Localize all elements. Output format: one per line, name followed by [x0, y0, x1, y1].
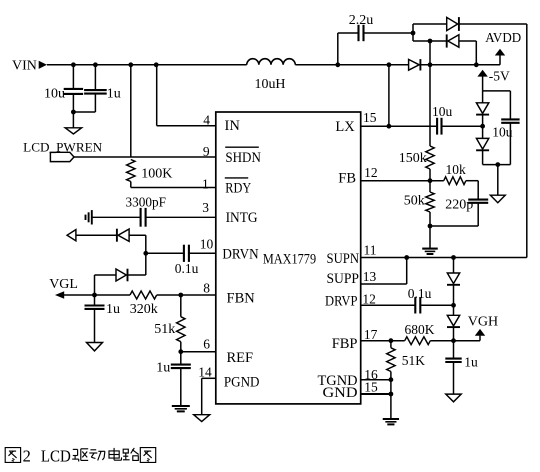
svg-text:2.2u: 2.2u — [349, 13, 374, 28]
svg-text:100K: 100K — [141, 166, 172, 181]
svg-text:SUPN: SUPN — [327, 251, 360, 267]
svg-text:VGH: VGH — [468, 315, 498, 330]
svg-text:15: 15 — [364, 380, 378, 395]
svg-text:AVDD: AVDD — [485, 31, 521, 46]
svg-text:0.1u: 0.1u — [175, 261, 199, 276]
svg-text:10: 10 — [200, 236, 214, 251]
svg-text:-5V: -5V — [489, 68, 510, 83]
svg-text:MAX1779: MAX1779 — [263, 252, 316, 268]
svg-text:51k: 51k — [154, 322, 175, 337]
svg-text:LCD: LCD — [41, 447, 71, 466]
svg-text:FB: FB — [338, 170, 356, 186]
svg-text:1u: 1u — [107, 86, 121, 101]
svg-text:220p: 220p — [445, 197, 473, 212]
svg-text:LCD_PWREN: LCD_PWREN — [23, 139, 103, 154]
svg-text:50k: 50k — [404, 194, 425, 209]
svg-text:3: 3 — [202, 200, 209, 215]
svg-text:VGL: VGL — [49, 277, 78, 292]
svg-text:10uH: 10uH — [255, 77, 286, 92]
svg-text:GND: GND — [323, 385, 358, 401]
svg-text:SHDN: SHDN — [225, 150, 261, 166]
svg-text:8: 8 — [203, 281, 210, 296]
svg-text:1u: 1u — [106, 302, 120, 317]
svg-text:11: 11 — [364, 243, 377, 258]
svg-text:1: 1 — [202, 176, 209, 191]
svg-text:6: 6 — [203, 336, 210, 351]
svg-text:13: 13 — [363, 269, 377, 284]
svg-text:FBP: FBP — [332, 336, 358, 352]
svg-text:DRVN: DRVN — [222, 247, 259, 263]
svg-text:10u: 10u — [432, 104, 453, 119]
svg-text:10u: 10u — [44, 86, 65, 101]
svg-text:320k: 320k — [130, 302, 158, 317]
svg-text:INTG: INTG — [226, 210, 258, 226]
svg-text:IN: IN — [225, 118, 241, 134]
svg-text:12: 12 — [362, 292, 376, 307]
svg-text:9: 9 — [203, 144, 210, 159]
svg-text:15: 15 — [363, 110, 377, 125]
svg-text:LX: LX — [335, 119, 355, 135]
svg-text:10k: 10k — [446, 162, 467, 177]
svg-text:DRVP: DRVP — [325, 294, 358, 310]
svg-text:150k: 150k — [399, 151, 427, 166]
svg-text:1u: 1u — [156, 361, 170, 376]
svg-text:3300pF: 3300pF — [126, 196, 167, 211]
svg-text:17: 17 — [364, 327, 378, 342]
svg-text:0.1u: 0.1u — [408, 286, 432, 301]
svg-text:REF: REF — [227, 350, 254, 366]
svg-text:FBN: FBN — [227, 290, 256, 306]
svg-text:SUPP: SUPP — [327, 271, 360, 287]
svg-text:VIN: VIN — [12, 59, 37, 74]
svg-text:4: 4 — [203, 112, 210, 127]
svg-text:PGND: PGND — [224, 374, 260, 390]
svg-text:12: 12 — [364, 165, 378, 180]
svg-text:1u: 1u — [464, 355, 478, 370]
svg-text:680K: 680K — [405, 322, 435, 337]
svg-text:2: 2 — [23, 447, 31, 466]
svg-text:10u: 10u — [492, 125, 513, 140]
svg-text:RDY: RDY — [225, 181, 251, 197]
svg-text:14: 14 — [198, 365, 212, 380]
svg-text:51K: 51K — [402, 353, 426, 368]
